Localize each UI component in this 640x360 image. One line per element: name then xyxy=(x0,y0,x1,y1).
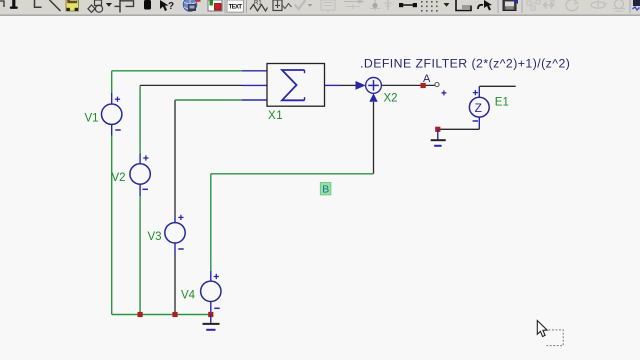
pin X1 input1 xyxy=(242,70,267,72)
toolbar separator xyxy=(521,0,523,13)
wire X2 bottom vertical (black) xyxy=(373,102,375,174)
label V4 xyxy=(181,290,196,302)
pin X1 output xyxy=(325,84,341,86)
toolbar icon fragment: help select xyxy=(160,0,174,12)
plus mark near node A xyxy=(441,90,446,95)
mouse cursor arrow xyxy=(537,321,547,337)
svg-text:V4: V4 xyxy=(181,290,196,302)
toolbar icon fragment: analysis colorful xyxy=(633,0,640,10)
toolbar icon fragment: diagonal line tool xyxy=(50,0,61,11)
toolbar icon fragment: flag tool xyxy=(115,0,134,13)
wire V3 bottom vertical (black) xyxy=(174,255,176,315)
junction dot at node A xyxy=(421,83,426,88)
ground at V4 xyxy=(203,315,220,330)
toolbar icon fragment: pin dot gray xyxy=(370,0,380,10)
toolbar icon fragment: stamp xyxy=(503,0,518,11)
wire X1 input2 horizontal (black) xyxy=(140,84,242,86)
toolbar icon fragment: component yellow xyxy=(66,0,79,11)
toolbar icon fragment: show values zigzag xyxy=(250,1,268,12)
toolbar icon fragment: globe breakpoint xyxy=(183,0,200,11)
wire E1 bottom to ground (black) xyxy=(438,128,480,130)
label V2 xyxy=(112,172,126,184)
toolbar separator xyxy=(246,0,248,13)
wire V3 top vertical (black) xyxy=(174,100,176,216)
label V1 xyxy=(85,113,99,125)
svg-text:V2: V2 xyxy=(112,172,126,184)
wire V2 top vertical (green) xyxy=(139,85,141,153)
toolbar strip xyxy=(0,0,640,15)
sum junction X2 xyxy=(356,78,382,102)
label X2 xyxy=(384,93,398,105)
svg-text:B: B xyxy=(322,184,329,196)
toolbar icon fragment: rotate gray xyxy=(566,0,580,11)
wire B horizontal (green) xyxy=(211,173,374,175)
toolbar icon fragment: current arrow gray xyxy=(344,0,363,9)
toolbar icon fragment: black dropdown xyxy=(444,3,450,7)
wire V4 top vertical (green) xyxy=(210,174,212,271)
toolbar icon fragment: wire mode L xyxy=(35,0,42,7)
label X1 xyxy=(268,110,283,122)
svg-text:E1: E1 xyxy=(495,96,509,108)
wire E1 top (black) xyxy=(479,85,515,87)
pin X1 input3 xyxy=(242,99,267,101)
svg-text:TEXT: TEXT xyxy=(229,5,243,11)
source V2 xyxy=(130,154,150,197)
svg-text:.DEFINE ZFILTER (2*(z^2)+1)/(z: .DEFINE ZFILTER (2*(z^2)+1)/(z^2) xyxy=(360,56,570,70)
toolbar icon fragment: window sheet xyxy=(456,0,471,11)
toolbar icon fragment: crooked cursor xyxy=(478,0,492,11)
toolbar icon fragment: flip gray xyxy=(543,0,555,9)
toolbar icon fragment: pin bars gray xyxy=(384,0,392,10)
source V1 xyxy=(102,93,122,136)
label E1 xyxy=(495,96,509,108)
toolbar icon: TEXT button xyxy=(227,0,244,12)
source V4 xyxy=(201,271,221,315)
source V3 xyxy=(165,215,185,255)
node A label xyxy=(423,73,431,85)
toolbar icon: node snap xyxy=(399,3,417,7)
svg-text:V3: V3 xyxy=(148,231,162,243)
macro block X1 xyxy=(267,64,325,107)
svg-text:?: ? xyxy=(168,1,174,12)
svg-text:X1: X1 xyxy=(268,110,283,122)
toolbar icon fragment: dropdown arrow xyxy=(106,3,112,7)
junction dot V2-rail xyxy=(138,312,143,317)
node B label xyxy=(320,183,331,196)
toolbar icon fragment: show pins xyxy=(273,0,292,11)
toolbar icon fragment: stop colors xyxy=(208,0,222,11)
toolbar icon fragment: node numbers gray xyxy=(321,0,335,13)
toolbar icon fragment: text tool T xyxy=(10,0,18,9)
toolbar icon fragment: small gray arrow xyxy=(308,4,313,7)
junction dot V4-rail xyxy=(208,312,213,317)
svg-text:A: A xyxy=(423,73,431,85)
toolbar icon fragment: info xyxy=(144,0,151,10)
wire V2 bottom vertical (green) xyxy=(139,196,141,315)
wire X1 output to X2 (black) xyxy=(340,84,356,86)
toolbar separator xyxy=(497,0,499,13)
toolbar icon fragment: flip y gray xyxy=(591,0,608,9)
toolbar icon fragment: gray check xyxy=(295,0,306,9)
toolbar icon fragment: left edge tool xyxy=(0,1,4,7)
junction dot E1 ground xyxy=(435,127,440,132)
toolbar separator xyxy=(629,0,631,13)
pin X1 input2 xyxy=(242,84,267,86)
wire bottom rail (green) xyxy=(112,314,211,316)
wire X1 input1 horizontal (green) xyxy=(112,70,242,72)
node A open end marker xyxy=(435,82,439,86)
svg-text:X2: X2 xyxy=(384,93,398,105)
label V3 xyxy=(148,231,162,243)
toolbar icon fragment: shapes xyxy=(88,0,103,12)
wire V1 top vertical (green) xyxy=(111,71,113,93)
wire V1 bottom vertical (green) xyxy=(111,136,113,315)
source E1 xyxy=(469,86,489,129)
ground at E1 xyxy=(431,129,446,146)
svg-text:Z: Z xyxy=(475,101,482,115)
svg-text:V1: V1 xyxy=(85,113,99,125)
toolbar icon fragment: align gray xyxy=(527,0,540,10)
toolbar separator xyxy=(224,0,226,13)
wire X1 input3 horizontal (green) xyxy=(175,99,242,101)
toolbar icon fragment: flip x gray xyxy=(613,0,625,11)
junction dot V3-rail xyxy=(172,312,177,317)
wire X2 output (black) xyxy=(381,84,435,86)
selection box dashed rect xyxy=(547,330,564,346)
toolbar icon: grid dots xyxy=(421,1,438,12)
.DEFINE text xyxy=(360,56,570,70)
